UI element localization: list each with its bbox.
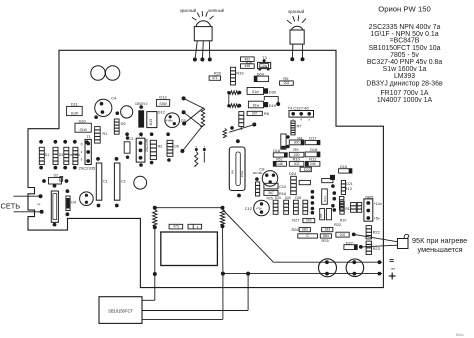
svg-text:пр: пр (37, 202, 41, 206)
svg-text:R22: R22 (334, 222, 341, 227)
svg-text:М15: М15 (149, 119, 153, 126)
svg-text:R9: R9 (293, 147, 298, 152)
svg-text:S1W: S1W (71, 111, 79, 115)
svg-text:R27: R27 (292, 218, 299, 223)
svg-text:D19: D19 (269, 103, 276, 108)
svg-text:S1w: S1w (253, 104, 260, 108)
svg-text:D12: D12 (158, 110, 165, 115)
svg-text:SB10150FCT: SB10150FCT (108, 308, 133, 313)
svg-text:красный: красный (180, 8, 196, 13)
svg-text:D11: D11 (71, 102, 78, 107)
svg-text:R11: R11 (309, 157, 316, 162)
svg-text:+5v: +5v (374, 217, 380, 221)
svg-text:D24: D24 (289, 171, 297, 176)
svg-text:10w: 10w (261, 64, 268, 68)
svg-text:470k: 470k (256, 206, 262, 210)
svg-text:BC327-40 PNP 45v 0.8a: BC327-40 PNP 45v 0.8a (367, 59, 443, 66)
svg-text:202: 202 (340, 233, 346, 237)
svg-text:367: 367 (268, 191, 274, 195)
svg-text:471: 471 (212, 76, 218, 80)
svg-text:2SC2335: 2SC2335 (79, 165, 96, 170)
svg-text:C10: C10 (279, 184, 287, 189)
svg-text:148: 148 (277, 162, 283, 166)
svg-text:D4: D4 (71, 200, 76, 204)
svg-text:СЕТЬ: СЕТЬ (1, 202, 21, 211)
svg-text:D17: D17 (309, 135, 316, 140)
svg-text:+14v: +14v (374, 202, 382, 206)
svg-text:R14: R14 (323, 196, 327, 202)
svg-text:DB3YJ: DB3YJ (135, 101, 147, 106)
svg-text:202: 202 (306, 219, 312, 223)
svg-text:R22: R22 (373, 229, 380, 234)
svg-text:202: 202 (284, 81, 290, 85)
svg-text:=BC847B: =BC847B (390, 38, 420, 45)
svg-text:206: 206 (310, 162, 316, 166)
svg-text:C4: C4 (111, 95, 117, 100)
svg-text:R10: R10 (293, 157, 301, 162)
svg-text:красный: красный (288, 9, 304, 14)
svg-text:C8: C8 (259, 166, 264, 171)
svg-text:R26: R26 (292, 227, 299, 232)
svg-text:R25: R25 (267, 197, 273, 201)
svg-text:T1: T1 (87, 135, 91, 139)
svg-text:R2: R2 (158, 145, 163, 149)
svg-text:б: б (300, 118, 302, 122)
svg-text:470: 470 (173, 225, 179, 229)
svg-text:207: 207 (252, 111, 258, 115)
svg-text:S1w: S1w (252, 90, 259, 94)
svg-text:LM393: LM393 (394, 73, 415, 80)
svg-text:683: 683 (302, 228, 308, 232)
svg-text:300: 300 (294, 141, 300, 145)
svg-text:D6: D6 (174, 145, 179, 149)
svg-text:R19: R19 (236, 71, 243, 76)
svg-text:183: 183 (324, 228, 330, 232)
svg-text:D15: D15 (340, 164, 347, 169)
svg-text:DB3YJ динистор 28-36в: DB3YJ динистор 28-36в (366, 81, 443, 88)
svg-text:T4 C327-40: T4 C327-40 (288, 105, 310, 110)
svg-text:Орион PW 150: Орион PW 150 (378, 4, 431, 13)
svg-text:4-НВк: 4-НВк (166, 119, 174, 123)
svg-text:2SC2335: 2SC2335 (145, 138, 149, 152)
svg-text:D9: D9 (121, 121, 126, 126)
svg-text:D25: D25 (275, 196, 281, 200)
svg-text:уменьшается: уменьшается (418, 245, 463, 254)
svg-text:R4: R4 (231, 170, 235, 174)
svg-text:S1W: S1W (79, 128, 87, 132)
svg-text:D28: D28 (295, 196, 301, 200)
svg-text:C1: C1 (103, 179, 108, 183)
svg-text:D30: D30 (269, 89, 277, 94)
svg-text:R6: R6 (264, 111, 269, 116)
svg-text:R20: R20 (214, 71, 222, 76)
svg-text:C12: C12 (245, 206, 252, 211)
svg-text:ВВск: ВВск (456, 333, 464, 337)
svg-text:448: 448 (245, 64, 251, 68)
svg-text:R1: R1 (102, 131, 107, 136)
svg-text:б: б (81, 143, 83, 147)
svg-text:180: 180 (319, 213, 323, 218)
svg-text:D1: D1 (45, 153, 49, 157)
svg-text:D16: D16 (273, 148, 280, 153)
svg-text:зелёный: зелёный (208, 8, 224, 13)
svg-text:D18: D18 (310, 147, 317, 152)
svg-text:C2: C2 (121, 179, 126, 183)
svg-text:R7: R7 (297, 124, 302, 129)
svg-text:D26: D26 (285, 196, 291, 200)
svg-text:D13: D13 (159, 94, 166, 99)
svg-text:2SC2335 NPN 400v 7a: 2SC2335 NPN 400v 7a (369, 24, 441, 31)
svg-text:22см: 22см (240, 171, 244, 178)
svg-text:95К при нагреве: 95К при нагреве (412, 236, 467, 245)
svg-text:R51: R51 (276, 157, 282, 161)
svg-text:302: 302 (294, 162, 300, 166)
svg-text:S3W: S3W (159, 102, 167, 106)
svg-text:1N4007 1000v 1A: 1N4007 1000v 1A (377, 97, 433, 104)
svg-text:D3: D3 (59, 153, 63, 157)
svg-text:2SC9К3: 2SC9К3 (69, 153, 80, 157)
svg-text:R12: R12 (345, 207, 351, 211)
svg-text:R13: R13 (345, 186, 352, 191)
svg-text:D2: D2 (54, 173, 59, 177)
svg-text:180-НВк: 180-НВк (252, 171, 263, 175)
svg-text:R25: R25 (322, 238, 329, 243)
